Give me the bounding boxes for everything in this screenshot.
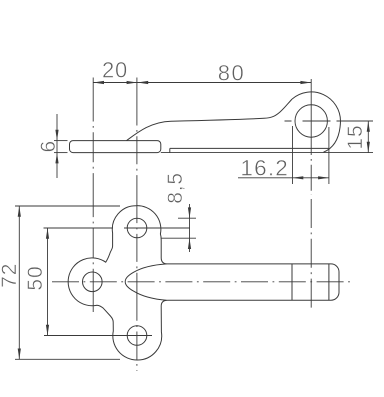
dim 6 arrows (55, 130, 58, 141)
centerline arm horizontal (52, 281, 352, 283)
dim 80 arrows (137, 81, 148, 84)
svg-text:15: 15 (344, 124, 367, 149)
plan step edge right (328, 264, 330, 300)
side view plate outline (70, 141, 161, 153)
hole top (127, 218, 147, 238)
svg-text:72: 72 (0, 263, 21, 288)
dim 20 arrows (93, 81, 104, 84)
plan view plate outline (68, 206, 339, 360)
hole middle (83, 272, 103, 292)
dim 16.2 ext lines (292, 126, 294, 184)
side view step riser (169, 148, 171, 152)
boss inner circle (hole) (295, 105, 327, 137)
dim 15 line (367, 121, 369, 153)
dim 72 arrows (18, 206, 21, 217)
centerline boss axis upper (310, 79, 312, 195)
dim 50 arrows (46, 228, 49, 239)
dim 15 arrows (367, 121, 370, 132)
dim 8,5 arrows (188, 207, 191, 218)
dim 50 bottom ext line + bottom hole centerline (44, 335, 152, 337)
svg-text:50: 50 (24, 265, 47, 290)
side view base line (161, 152, 373, 154)
dim 72 line (18, 206, 20, 359)
svg-text:80: 80 (218, 61, 245, 86)
svg-text:16.2: 16.2 (240, 155, 289, 180)
top hole horizontal centerline / ext (124, 227, 190, 229)
svg-text:8,5: 8,5 (164, 172, 187, 204)
dim 8,5 ext tick top (178, 217, 196, 219)
dimension 6 line (56, 114, 58, 178)
dimension 6 ext ticks (54, 140, 68, 142)
side view step line (170, 147, 329, 149)
dim 72 bottom ext line (15, 358, 120, 360)
dim 50 top ext line (44, 227, 114, 229)
dim 8,5 ext tick bottom (162, 237, 197, 239)
plan step edge left (291, 264, 293, 300)
svg-text:6: 6 (37, 141, 60, 153)
plan raised pad teardrop (125, 264, 166, 300)
svg-text:20: 20 (102, 58, 128, 83)
dim 16.2 line (238, 177, 329, 179)
centerline boss axis lower (310, 199, 312, 309)
dim 50 line (47, 228, 49, 336)
hole bottom (127, 326, 147, 346)
dim 16.2 arrows (293, 176, 304, 179)
centerline boss horizontal (285, 120, 374, 122)
dim 8,5 line (189, 204, 191, 252)
dimension 20/80 line (93, 82, 311, 84)
centerline x=93 (92, 78, 94, 313)
dim 72 top ext line (15, 205, 120, 207)
boss outer arc (292, 92, 341, 152)
side view ramp curve (127, 99, 293, 141)
centerline x=137 (136, 78, 138, 372)
